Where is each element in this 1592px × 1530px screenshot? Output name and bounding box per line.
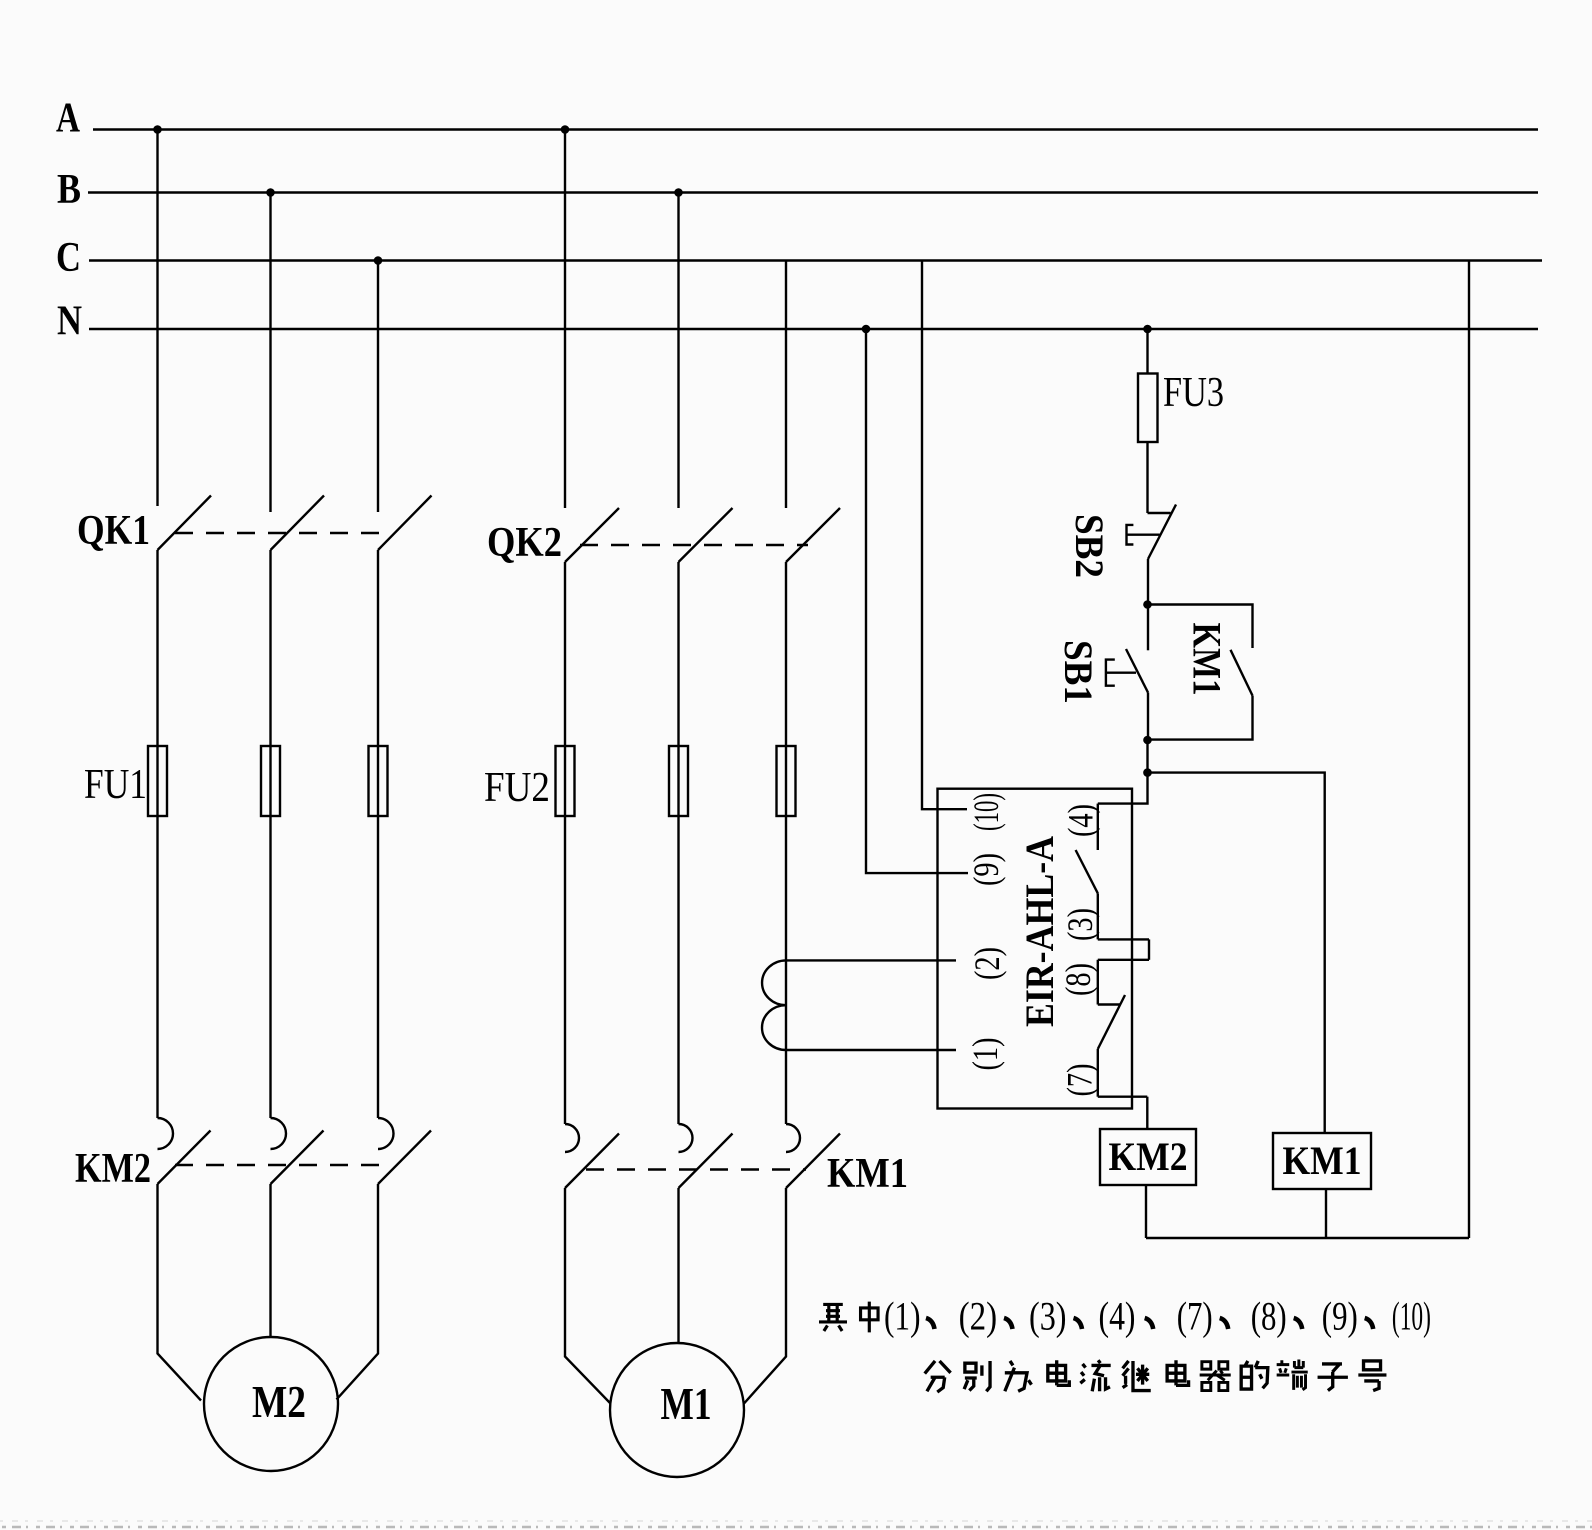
wire KM1 pole2 to M1 [677, 1188, 679, 1343]
svg-text:(4): (4) [1061, 804, 1101, 837]
SB2 label [1067, 514, 1112, 578]
svg-text:SB1: SB1 [1056, 640, 1101, 704]
junction dot SB1 bottom [1143, 736, 1152, 745]
svg-text:(3): (3) [1029, 1294, 1067, 1339]
relay wire 8 down [1097, 960, 1099, 1005]
comma 3 [1074, 1318, 1083, 1329]
fuse FU3 [1138, 374, 1158, 443]
junction dot B/QK2 [674, 188, 683, 197]
relay NO contact blade 8-7 [1098, 995, 1125, 1049]
svg-text:QK1: QK1 [77, 508, 150, 554]
svg-text:EIR-AHL-A: EIR-AHL-A [1017, 836, 1062, 1027]
svg-text:KM1: KM1 [827, 1151, 908, 1197]
node C label [56, 235, 81, 281]
comma 2 [1004, 1318, 1013, 1329]
svg-text:FU1: FU1 [84, 762, 147, 808]
svg-text:(8): (8) [1058, 963, 1098, 996]
svg-text:KM2: KM2 [1109, 1134, 1188, 1179]
relay wire blade to 7 [1097, 1049, 1099, 1097]
pin ref (4) [1099, 1294, 1136, 1339]
relay contact 4 bar [1097, 804, 1099, 850]
wire B to QK2 pole2 [677, 193, 679, 509]
wire node to node [1146, 740, 1148, 773]
QK2 label [487, 520, 562, 566]
contactor KM2 arc pole2 [271, 1118, 287, 1149]
coil KM2 label [1109, 1134, 1188, 1179]
pin label 3 [1060, 908, 1100, 941]
wire C to QK2 pole3 [785, 261, 787, 509]
contactor KM2 arc pole3 [378, 1118, 394, 1149]
relay U1 EIR-AHL-A label [1017, 836, 1062, 1027]
wire KM1 pole3 to M1 [744, 1188, 786, 1404]
svg-text:(4): (4) [1099, 1294, 1136, 1339]
junction dot B/QK1 [266, 188, 275, 197]
KM1 aux contact blade [1231, 650, 1253, 696]
fuse FU1 pole2 [261, 746, 280, 816]
svg-text:KM2: KM2 [75, 1146, 151, 1192]
FU2 label [484, 765, 550, 811]
CT coupling loop lower [762, 1005, 786, 1050]
button SB2 blade [1148, 505, 1176, 560]
QK1 linkage dashed [175, 532, 392, 534]
KM2 label [75, 1146, 151, 1192]
pin ref (8) [1251, 1294, 1287, 1339]
wire QK2 pole1 down [564, 562, 566, 1124]
contactor KM1 blade pole2 [679, 1134, 733, 1189]
KM1 linkage dashed [586, 1168, 806, 1170]
pin ref (7) [1177, 1294, 1213, 1339]
svg-text:(1): (1) [884, 1294, 921, 1339]
junction dot C/QK1 [374, 256, 383, 265]
contactor KM2 blade pole1 [158, 1131, 211, 1185]
contactor KM2 blade pole2 [271, 1131, 324, 1185]
wire bottom rail [1146, 1237, 1469, 1239]
KM1 aux contact wire bottom [1148, 696, 1253, 740]
coil KM2 box [1100, 1129, 1196, 1185]
FU3 label [1163, 370, 1224, 416]
svg-text:(3): (3) [1060, 908, 1100, 941]
relay terminal 8 lead [1098, 959, 1149, 961]
coil KM1 label [1283, 1138, 1362, 1183]
wire terminal 2 lead [786, 959, 956, 961]
fuse FU2 pole1 [556, 746, 575, 816]
wire KM2 coil to rail [1145, 1185, 1147, 1238]
contactor KM1 arc pole2 [679, 1124, 693, 1152]
contactor KM1 blade pole3 [786, 1134, 840, 1189]
pin ref (1) [884, 1294, 921, 1339]
svg-text:FU2: FU2 [484, 765, 550, 811]
wire to relay terminal 4 [1098, 773, 1148, 804]
svg-text:B: B [57, 167, 81, 213]
svg-text:C: C [56, 235, 81, 281]
motor M2 [204, 1337, 338, 1471]
junction dot SB2 bottom [1143, 600, 1152, 609]
svg-text:(10): (10) [966, 793, 1006, 831]
M2 label [252, 1376, 306, 1427]
switch QK2 blade pole1 [565, 508, 619, 562]
wire QK1 pole3 down [377, 550, 379, 1118]
bus C [89, 259, 1542, 261]
wire to KM1 coil [1148, 773, 1325, 1133]
contactor KM2 blade pole3 [378, 1131, 431, 1185]
wire KM2 pole1 to M2 [158, 1184, 202, 1401]
wire QK1 pole1 down [156, 550, 158, 1118]
scan artifact bottom edge [0, 1521, 1592, 1527]
pin ref (10) [1392, 1294, 1431, 1339]
bus N [89, 328, 1538, 330]
SB1 label [1056, 640, 1101, 704]
node N label [57, 299, 82, 345]
pin label 9 [966, 853, 1006, 886]
fuse FU2 pole2 [669, 746, 688, 816]
node A label [56, 96, 81, 142]
svg-text:KM1: KM1 [1283, 1138, 1362, 1183]
pin label 1 [965, 1038, 1005, 1071]
coil KM1 box [1273, 1133, 1371, 1189]
svg-text:(10): (10) [1392, 1294, 1431, 1339]
relay NC contact blade 4-3 [1076, 850, 1098, 893]
button SB2 seat [1148, 512, 1171, 514]
junction dot N drop x866 [862, 325, 871, 334]
pin ref (2) [959, 1294, 998, 1339]
svg-text:(9): (9) [966, 853, 1006, 886]
svg-text:(7): (7) [1177, 1294, 1213, 1339]
svg-text:A: A [56, 96, 81, 142]
svg-text:QK2: QK2 [487, 520, 562, 566]
annotation note line1 其中 [819, 1302, 878, 1333]
contactor KM1 arc pole1 [565, 1124, 579, 1152]
button SB2 actuator [1127, 525, 1160, 545]
relay box EIR-AHL-A [938, 789, 1133, 1109]
relay terminal 7 lead [1098, 1095, 1148, 1097]
fuse FU1 pole3 [369, 746, 388, 816]
wire N to FU3 [1146, 329, 1148, 374]
pin ref (3) [1029, 1294, 1067, 1339]
svg-text:N: N [57, 299, 82, 345]
contactor KM1 blade pole1 [565, 1134, 619, 1189]
wire N drop to terminal 9 [866, 329, 968, 873]
relay terminal 3 lead [1098, 938, 1149, 940]
annotation note line2 [925, 1359, 1387, 1392]
FU1 label [84, 762, 147, 808]
wire C to terminal 10 [922, 261, 967, 810]
pin ref (9) [1322, 1294, 1358, 1339]
wire A to QK2 pole1 [564, 130, 566, 509]
button SB1 wire top [1147, 605, 1149, 651]
wire KM2 pole2 to M2 [269, 1184, 271, 1337]
switch QK2 blade pole2 [679, 508, 733, 562]
QK1 label [77, 508, 150, 554]
pin label 8 [1058, 963, 1098, 996]
comma 1 [926, 1318, 935, 1329]
svg-text:(2): (2) [967, 947, 1007, 980]
wire QK1 pole2 down [269, 550, 271, 1118]
switch QK1 blade pole2 [271, 496, 325, 551]
wire terminal 7 to KM2 coil [1146, 1097, 1148, 1129]
comma 6 [1294, 1318, 1303, 1329]
comma 4 [1145, 1318, 1154, 1329]
contactor KM1 arc pole3 [786, 1124, 800, 1152]
svg-text:M1: M1 [661, 1378, 712, 1429]
node B label [57, 167, 81, 213]
wire C down right side [1468, 261, 1470, 1239]
switch QK1 blade pole1 [158, 496, 212, 551]
relay wire blade to 3 [1097, 893, 1099, 939]
relay contact 8 seat [1098, 1003, 1120, 1005]
fuse FU1 pole1 [148, 746, 167, 816]
KM1 aux contact branch wire top [1148, 605, 1253, 649]
junction dot A/QK2 [561, 125, 570, 134]
relay tab 3-8 [1148, 939, 1150, 959]
wire terminal 1 lead [786, 1049, 956, 1051]
svg-text:SB2: SB2 [1067, 514, 1112, 578]
svg-text:FU3: FU3 [1163, 370, 1224, 416]
svg-text:M2: M2 [252, 1376, 306, 1427]
pin label 2 [967, 947, 1007, 980]
switch QK1 blade pole3 [378, 496, 432, 551]
wire B to QK1 pole2 [269, 193, 271, 513]
KM2 linkage dashed [175, 1164, 392, 1166]
switch QK2 blade pole3 [786, 508, 840, 562]
comma 5 [1220, 1318, 1229, 1329]
wire KM1 coil to rail [1325, 1189, 1327, 1238]
svg-text:(2): (2) [959, 1294, 998, 1339]
wire QK2 pole3 down [785, 562, 787, 1124]
contactor KM2 arc pole1 [158, 1118, 174, 1149]
wire SB2 to node [1147, 559, 1149, 605]
KM1 aux label [1185, 623, 1230, 696]
comma 7 [1365, 1318, 1374, 1329]
button SB1 actuator [1106, 660, 1136, 686]
svg-text:(7): (7) [1060, 1064, 1100, 1097]
junction dot A/QK1 [153, 125, 162, 134]
bus B [88, 191, 1538, 193]
wire A to QK1 pole1 [156, 130, 158, 507]
svg-text:KM1: KM1 [1185, 623, 1230, 696]
wire KM2 pole3 to M2 [337, 1184, 379, 1400]
wire KM1 pole1 to M1 [565, 1188, 611, 1404]
junction dot N/FU3 [1143, 325, 1152, 334]
M1 label [661, 1378, 712, 1429]
pin label 10 [966, 793, 1006, 831]
svg-text:(8): (8) [1251, 1294, 1287, 1339]
QK2 linkage dashed [580, 544, 808, 546]
pin label 7 [1060, 1064, 1100, 1097]
bus A [93, 128, 1538, 130]
motor M1 [610, 1343, 744, 1477]
svg-text:(1): (1) [965, 1038, 1005, 1071]
wire QK2 pole2 down [677, 562, 679, 1124]
button SB1 blade [1126, 649, 1148, 693]
CT coupling loop upper [762, 960, 786, 1005]
wire FU3 to SB2 [1146, 442, 1148, 513]
junction dot relay feed [1143, 768, 1152, 777]
wire C to QK1 pole3 [377, 261, 379, 513]
svg-text:(9): (9) [1322, 1294, 1358, 1339]
fuse FU2 pole3 [777, 746, 796, 816]
pin label 4 [1061, 804, 1101, 837]
wire SB1 to node [1147, 693, 1149, 741]
KM1 main label [827, 1151, 908, 1197]
